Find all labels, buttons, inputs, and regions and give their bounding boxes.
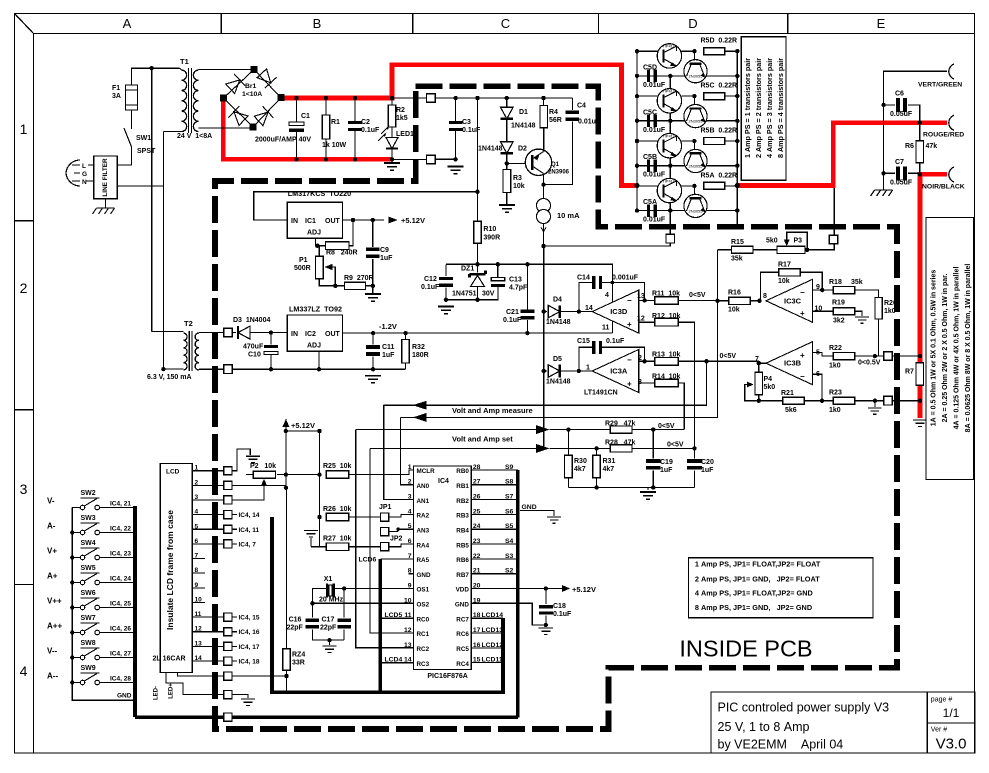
pad T2 bottom into PCB: [224, 365, 233, 374]
svg-text:4: 4: [605, 292, 609, 299]
svg-text:R10: R10: [483, 226, 496, 233]
connector ROUGE/RED: [949, 115, 954, 130]
svg-text:4: 4: [20, 663, 28, 679]
svg-text:LED1: LED1: [396, 131, 414, 138]
svg-text:V3.0: V3.0: [936, 736, 967, 753]
ground at LED-: [241, 699, 255, 705]
transistor Q1 2N3906: [525, 149, 551, 175]
svg-text:RB3: RB3: [456, 513, 469, 520]
wire gnd bus black to pad: [392, 158, 431, 160]
capacitor C5A 0.01uF: [637, 210, 645, 212]
net arrow: Volt and Amp set line 2: [370, 447, 544, 449]
AC plug connector: [66, 160, 80, 186]
svg-text:0.1uF: 0.1uF: [462, 127, 481, 134]
wire T2 return rail: [232, 368, 405, 370]
svg-text:8 Amp PS = 4 transistors pair: 8 Amp PS = 4 transistors pair: [776, 58, 785, 158]
resistor R15 35k: [717, 249, 731, 251]
wire measure2 down to AN0: [400, 417, 413, 484]
svg-text:SW2: SW2: [81, 490, 96, 497]
svg-text:R21: R21: [781, 390, 794, 397]
svg-text:−: −: [627, 296, 632, 305]
resistor R18 35k: [833, 287, 855, 294]
svg-text:−: −: [800, 372, 805, 381]
svg-text:R17: R17: [778, 262, 791, 269]
svg-text:1k 10W: 1k 10W: [322, 142, 347, 149]
wire R28 node to C20: [694, 448, 696, 458]
svg-text:4 Amp PS, JP1= FLOAT,JP2= GND: 4 Amp PS, JP1= FLOAT,JP2= GND: [695, 588, 813, 597]
pad LCD pin 11 at PCB edge: [224, 613, 232, 621]
svg-text:C9: C9: [380, 247, 389, 254]
svg-text:P3: P3: [794, 238, 803, 245]
svg-text:1k0: 1k0: [884, 308, 896, 315]
svg-text:2N3055: 2N3055: [688, 164, 703, 169]
bridge rectifier Br1 1<10A: [224, 70, 282, 128]
long wire down to T2 primary: [151, 68, 153, 331]
svg-text:1N4148: 1N4148: [546, 319, 571, 326]
wire OS2 to PIC: [312, 602, 413, 604]
svg-text:35k: 35k: [731, 256, 743, 263]
potentiometer P1 500R: [317, 246, 319, 257]
svg-text:T1: T1: [180, 57, 189, 66]
wire MCLR to P2 node: [286, 474, 320, 476]
resistor R14 10k: [639, 382, 655, 384]
wire T1 secondary bottom to bridge: [199, 125, 254, 128]
svg-text:2L 16CAR: 2L 16CAR: [153, 656, 186, 663]
current source 10 mA: [537, 199, 551, 213]
svg-text:2000uF/AMP 40V: 2000uF/AMP 40V: [255, 137, 311, 144]
grid row numbers: [20, 121, 28, 679]
pad LCD pin 13 at PCB edge: [224, 642, 232, 650]
svg-text:IC4, 7: IC4, 7: [239, 541, 257, 548]
svg-text:A+: A+: [47, 572, 58, 581]
thick LCD data bus: [272, 517, 380, 692]
svg-text:5k6: 5k6: [785, 407, 797, 414]
svg-text:0.1uF: 0.1uF: [606, 338, 625, 345]
svg-text:DZ1: DZ1: [461, 266, 474, 273]
svg-text:LT1491CN: LT1491CN: [584, 390, 618, 397]
ground at R19: [855, 317, 869, 323]
svg-text:V++: V++: [47, 597, 62, 606]
svg-text:2: 2: [20, 280, 28, 296]
svg-text:page #: page #: [931, 697, 953, 704]
svg-text:14: 14: [585, 305, 593, 312]
pad on thick gnd bus: [224, 713, 232, 721]
wire T2 secondary bottom: [199, 368, 228, 370]
svg-text:Br1: Br1: [245, 83, 257, 90]
wire IC1 feed from +V vertical: [254, 98, 478, 220]
svg-text:NOIR/BLACK: NOIR/BLACK: [922, 184, 965, 191]
svg-text:IC4, 15: IC4, 15: [239, 615, 260, 622]
ground below LED1: [391, 150, 393, 163]
svg-text:LINE FILTER: LINE FILTER: [102, 158, 109, 197]
svg-text:R12 10k: R12 10k: [652, 313, 681, 320]
svg-text:R16: R16: [728, 290, 741, 297]
svg-text:by VE2EMM April 04: by VE2EMM April 04: [718, 738, 844, 752]
svg-text:C13: C13: [509, 277, 522, 284]
connector VERT/GREEN: [949, 64, 954, 79]
svg-text:30V: 30V: [482, 291, 495, 298]
svg-text:+: +: [627, 380, 632, 389]
wire line filter out 1 to SW1: [117, 147, 131, 165]
svg-text:A++: A++: [47, 622, 62, 631]
resistor R12 10k: [639, 321, 655, 323]
svg-text:C19: C19: [660, 459, 673, 466]
resistor R27 10k: [320, 517, 327, 547]
svg-text:OS2: OS2: [417, 602, 430, 609]
svg-text:1k0: 1k0: [829, 407, 841, 414]
driver transistor TA (TIP41C): [657, 178, 681, 202]
svg-text:20 MHz: 20 MHz: [319, 597, 344, 604]
svg-text:10k: 10k: [778, 278, 790, 285]
svg-text:IC4, 27: IC4, 27: [110, 651, 131, 658]
svg-text:10k: 10k: [728, 307, 740, 314]
svg-text:D1: D1: [519, 109, 528, 116]
svg-text:0.01uF: 0.01uF: [578, 119, 601, 126]
svg-text:IC4, 22: IC4, 22: [110, 526, 131, 533]
capacitor C15 0.1uF: [579, 347, 592, 371]
svg-text:R18: R18: [829, 279, 842, 286]
potentiometer P2 10k: [246, 456, 260, 462]
svg-text:1uF: 1uF: [660, 467, 673, 474]
wire 10mA node down left rail: [543, 248, 545, 449]
resistor R2 1k5: [391, 98, 393, 105]
svg-text:−: −: [800, 288, 805, 297]
svg-text:+5.12V: +5.12V: [401, 216, 425, 225]
capacitor C4 0.01uF: [571, 98, 573, 110]
svg-text:R1: R1: [331, 119, 340, 126]
svg-text:56R: 56R: [549, 117, 562, 124]
svg-text:2 Amp PS = 2 transistors pair: 2 Amp PS = 2 transistors pair: [754, 58, 763, 158]
svg-text:5k0: 5k0: [764, 384, 776, 391]
svg-text:VERT/GREEN: VERT/GREEN: [918, 82, 962, 89]
svg-text:RC0: RC0: [417, 616, 430, 623]
wire F1 top to T1 primary: [132, 68, 180, 85]
svg-text:LCD12: LCD12: [482, 642, 504, 649]
svg-text:JP2: JP2: [390, 536, 403, 543]
svg-text:LM337LZ TO92: LM337LZ TO92: [289, 305, 342, 314]
resistor R20 1k0: [875, 298, 882, 320]
svg-text:OUT: OUT: [325, 218, 341, 225]
bank right rail: [736, 51, 738, 186]
wire Q1 emitter down: [543, 174, 545, 200]
capacitor C21 0.1uF: [526, 264, 528, 309]
svg-text:R28 47k: R28 47k: [605, 440, 635, 447]
ground wire left of R27: [311, 546, 326, 548]
svg-text:3A: 3A: [112, 93, 121, 100]
svg-text:C6: C6: [895, 91, 904, 98]
svg-text:Q1: Q1: [551, 162, 560, 168]
svg-text:IC3C: IC3C: [784, 296, 802, 305]
svg-text:R19: R19: [832, 300, 845, 307]
pad LED+ line: [224, 672, 232, 680]
svg-text:1/1: 1/1: [943, 706, 960, 720]
svg-text:Volt and Amp set: Volt and Amp set: [452, 435, 513, 444]
resistor R31 4k7: [596, 448, 598, 455]
svg-text:+: +: [800, 351, 805, 360]
wire positive bus y=98 black continuation: [392, 97, 431, 99]
svg-text:+: +: [800, 309, 805, 318]
capacitor C7 0.05uF: [883, 105, 885, 173]
unit B emitter row wire: [637, 165, 737, 167]
wire LCD pin2 to +5V rail: [232, 484, 286, 486]
svg-text:0.1uF: 0.1uF: [553, 611, 572, 618]
wire IC2 OUT -1.2V rail: [343, 332, 613, 334]
driver transistor TB (TIP41C): [657, 134, 681, 158]
wire RC3 to harness: [380, 662, 413, 664]
svg-text:RB5: RB5: [456, 542, 469, 549]
svg-text:R8 240R: R8 240R: [326, 250, 358, 257]
svg-text:LCD13: LCD13: [482, 627, 504, 634]
pad LCD pin 5 at PCB edge: [224, 525, 232, 533]
svg-text:ADJ: ADJ: [307, 343, 321, 350]
svg-text:P2 10k: P2 10k: [250, 463, 276, 470]
svg-text:G: G: [82, 171, 87, 178]
wire RA5 to harness: [380, 558, 413, 560]
capacitor C20 1uF: [687, 459, 702, 463]
ground below line filter: [105, 199, 107, 208]
svg-text:AN3: AN3: [417, 527, 430, 534]
svg-text:V-: V-: [47, 497, 55, 506]
svg-text:C7: C7: [895, 159, 904, 166]
svg-text:+5.12V: +5.12V: [291, 421, 315, 430]
LED- wire: [166, 673, 228, 695]
svg-text:SW1: SW1: [136, 135, 151, 142]
pad R23 line through PCB edge: [884, 396, 893, 405]
svg-text:1k5: 1k5: [396, 115, 408, 122]
svg-text:C5C: C5C: [643, 109, 657, 116]
wire current source down: [543, 224, 545, 247]
wire zener cluster ground rail: [446, 287, 498, 300]
thick LCD data harness right of PIC: [380, 559, 503, 692]
svg-text:1uF: 1uF: [382, 352, 395, 359]
svg-text:LED+: LED+: [169, 683, 175, 699]
ground below C12/DZ1: [438, 307, 454, 314]
note box: shunt resistor values: [926, 217, 974, 479]
svg-text:RB0: RB0: [456, 468, 469, 475]
svg-text:GND: GND: [417, 572, 431, 579]
pad LED- line: [224, 690, 232, 698]
svg-text:A-: A-: [47, 522, 56, 531]
svg-text:SW8: SW8: [81, 640, 96, 647]
bank output drop to PCB boundary: [736, 186, 738, 229]
pad LCD pin 14 at PCB edge: [224, 657, 232, 665]
svg-text:R9 270R: R9 270R: [344, 275, 374, 282]
resistor R1 1k 10W: [325, 98, 327, 115]
svg-text:SPST: SPST: [137, 148, 156, 155]
svg-text:LCD: LCD: [166, 469, 180, 476]
svg-text:GND: GND: [455, 602, 469, 609]
svg-text:RC4: RC4: [456, 661, 469, 668]
svg-text:R31: R31: [603, 458, 616, 465]
svg-text:R23: R23: [829, 390, 842, 397]
transistor pair unit B row wire: [637, 140, 664, 142]
svg-text:1uF: 1uF: [380, 255, 393, 262]
zener rail: [446, 264, 613, 282]
op-amp IC3D (LT1491): [592, 290, 639, 333]
pad R22 line through PCB edge: [884, 352, 893, 361]
wire D3 to IC2 IN: [250, 332, 287, 334]
svg-text:JP1: JP1: [379, 504, 392, 511]
svg-text:RC3: RC3: [417, 661, 430, 668]
svg-text:D: D: [688, 16, 697, 31]
grid column letters: [123, 16, 886, 31]
svg-text:PIC16F876A: PIC16F876A: [427, 673, 467, 680]
svg-text:IC4, 11: IC4, 11: [239, 527, 260, 534]
svg-text:4k7: 4k7: [603, 466, 615, 473]
bank left rail: [636, 51, 638, 210]
wire IC3C non-inverting input: [813, 310, 834, 312]
capacitor C5C 0.01uF: [637, 120, 645, 122]
resistor R5C 0.22R: [704, 93, 725, 100]
svg-text:RB1: RB1: [456, 483, 469, 490]
fuse F1 3A: [126, 85, 138, 110]
driver transistor TD (TIP41C): [657, 44, 681, 68]
svg-text:R11 10k: R11 10k: [652, 291, 680, 298]
resistor R16 10k: [729, 297, 751, 304]
microcontroller IC4 PIC16F876A: [414, 466, 472, 670]
svg-text:R5D 0.22R: R5D 0.22R: [701, 38, 738, 45]
svg-text:AN0: AN0: [417, 483, 430, 490]
svg-text:RC2: RC2: [417, 646, 430, 653]
svg-text:C12: C12: [424, 276, 437, 283]
svg-text:C20: C20: [701, 459, 714, 466]
svg-text:180R: 180R: [412, 352, 429, 359]
svg-text:IC4, 28: IC4, 28: [110, 676, 131, 683]
svg-text:R25 10k: R25 10k: [323, 463, 352, 470]
svg-text:OS1: OS1: [417, 587, 430, 594]
capacitor C16 22pF: [311, 603, 313, 617]
resistor R30 4k7: [567, 430, 569, 456]
switch common rail: [72, 508, 135, 701]
wire LCD pin1 to ground: [232, 449, 250, 471]
svg-text:1N4148: 1N4148: [511, 123, 536, 130]
capacitor C6 0.05uF: [884, 104, 895, 106]
svg-text:X1: X1: [324, 576, 333, 583]
capacitor C9 1uF: [372, 220, 374, 247]
svg-text:2N3055: 2N3055: [688, 208, 703, 213]
svg-text:S3: S3: [505, 553, 514, 560]
svg-text:ROUGE/RED: ROUGE/RED: [923, 132, 964, 139]
svg-text:12: 12: [637, 316, 645, 323]
svg-text:R5C 0.22R: R5C 0.22R: [701, 83, 738, 90]
svg-text:R2: R2: [396, 107, 405, 114]
unit D emitter row wire: [637, 75, 737, 77]
svg-text:47k: 47k: [926, 143, 938, 150]
svg-text:Insulate LCD frame from case: Insulate LCD frame from case: [165, 510, 175, 630]
svg-text:1k0: 1k0: [829, 363, 841, 370]
svg-text:RA5: RA5: [417, 557, 430, 564]
svg-text:24 V 1<8A: 24 V 1<8A: [177, 133, 212, 140]
svg-text:C11: C11: [382, 344, 395, 351]
title block: [711, 692, 975, 753]
svg-text:IC4, 17: IC4, 17: [239, 644, 260, 651]
svg-text:500R: 500R: [294, 265, 311, 272]
resistor R32 180R: [405, 333, 407, 339]
svg-text:D2: D2: [518, 146, 527, 153]
capacitor C18 0.1uF: [545, 589, 547, 605]
net arrow: Volt and Amp measure line 1: [384, 361, 707, 405]
svg-text:RB7: RB7: [456, 572, 469, 579]
transistor pair unit A row wire: [637, 185, 664, 187]
svg-text:0<5V: 0<5V: [720, 353, 737, 360]
svg-text:R4: R4: [549, 109, 558, 116]
wire IC2 ADJ to return rail: [318, 351, 320, 369]
svg-text:C10: C10: [248, 352, 261, 359]
note box: jumper settings: [688, 558, 873, 618]
power transistor QB (2N3055): [692, 139, 696, 143]
resistor R5D 0.22R: [704, 48, 725, 55]
diode D5 1N4148: [544, 370, 547, 372]
svg-text:L: L: [82, 163, 86, 170]
wire RC0 to harness: [380, 617, 413, 619]
svg-text:ADJ: ADJ: [307, 230, 321, 237]
wire T1 primary bottom: [163, 131, 179, 133]
resistor R3 10k: [503, 170, 511, 193]
svg-text:11: 11: [602, 325, 610, 332]
svg-text:R5A 0.22R: R5A 0.22R: [701, 172, 738, 179]
+5.12V feed arrow at P2 rail: [282, 419, 289, 427]
svg-text:MCLR: MCLR: [417, 468, 436, 475]
svg-text:IC3B: IC3B: [784, 359, 802, 368]
svg-text:0.001uF: 0.001uF: [612, 275, 639, 282]
svg-text:S5: S5: [505, 523, 514, 530]
wire measure1 down to AN1: [384, 405, 414, 499]
resistor R28 47k: [594, 446, 598, 450]
svg-text:LCD5: LCD5: [385, 612, 403, 619]
svg-text:R13 10k: R13 10k: [652, 352, 681, 359]
svg-text:2 Amp PS, JP1= GND, JP2= FLO: 2 Amp PS, JP1= GND, JP2= FLOAT: [695, 574, 820, 583]
svg-text:10 mA: 10 mA: [557, 211, 580, 220]
svg-text:10k: 10k: [513, 183, 525, 190]
capacitor C14 0.001uF: [579, 283, 592, 312]
switch SW1 SPST: [131, 110, 133, 129]
wire LCD pin3 to P2 wiper: [232, 499, 264, 501]
capacitor C10 470uF: [270, 333, 272, 345]
note box: transistors pair table: [741, 37, 786, 181]
capacitor C13 4.7pF: [497, 264, 499, 278]
svg-text:C17: C17: [322, 617, 335, 624]
diode D2 1N4148: [506, 120, 508, 142]
red wire: NOIR/BLACK negative terminal drop: [920, 174, 947, 418]
svg-text:RC6: RC6: [456, 631, 469, 638]
resistor R10 390R: [477, 192, 479, 222]
svg-text:C15: C15: [577, 338, 590, 345]
wire base node to Q1: [507, 162, 531, 164]
svg-text:-1.2V: -1.2V: [379, 322, 397, 331]
capacitor C1 2000uF/AMP 40V: [296, 98, 298, 122]
P1 wiper: [325, 264, 333, 271]
svg-text:IN: IN: [291, 218, 298, 225]
svg-text:D4: D4: [553, 297, 562, 304]
diode D1 1N4148: [506, 98, 508, 107]
svg-text:R22: R22: [829, 345, 842, 352]
svg-text:−: −: [627, 356, 632, 365]
svg-text:4k7: 4k7: [574, 466, 586, 473]
resistor R21 5k6: [759, 400, 782, 402]
op-amp IC3C: [766, 279, 813, 322]
PCB boundary dashed outline (INSIDE PCB): [215, 86, 897, 729]
svg-text:1 Amp PS, JP1= FLOAT,JP2= FLOA: 1 Amp PS, JP1= FLOAT,JP2= FLOAT: [695, 559, 821, 568]
net arrow: Volt and Amp set line 1: [356, 429, 544, 431]
LED+ wire: [178, 673, 224, 677]
svg-text:35k: 35k: [851, 279, 863, 286]
svg-text:LCD14: LCD14: [482, 612, 504, 619]
svg-text:2N3055: 2N3055: [688, 119, 703, 124]
wire pin19 GND to C18 ground: [471, 603, 546, 625]
svg-text:IC4: IC4: [438, 478, 449, 485]
wire R15 left down to R16 node: [716, 250, 718, 301]
svg-text:1A = 0.5 Ohm 1W or 5X 0.1 Ohm,: 1A = 0.5 Ohm 1W or 5X 0.1 Ohm, 0.5W in s…: [931, 270, 938, 427]
